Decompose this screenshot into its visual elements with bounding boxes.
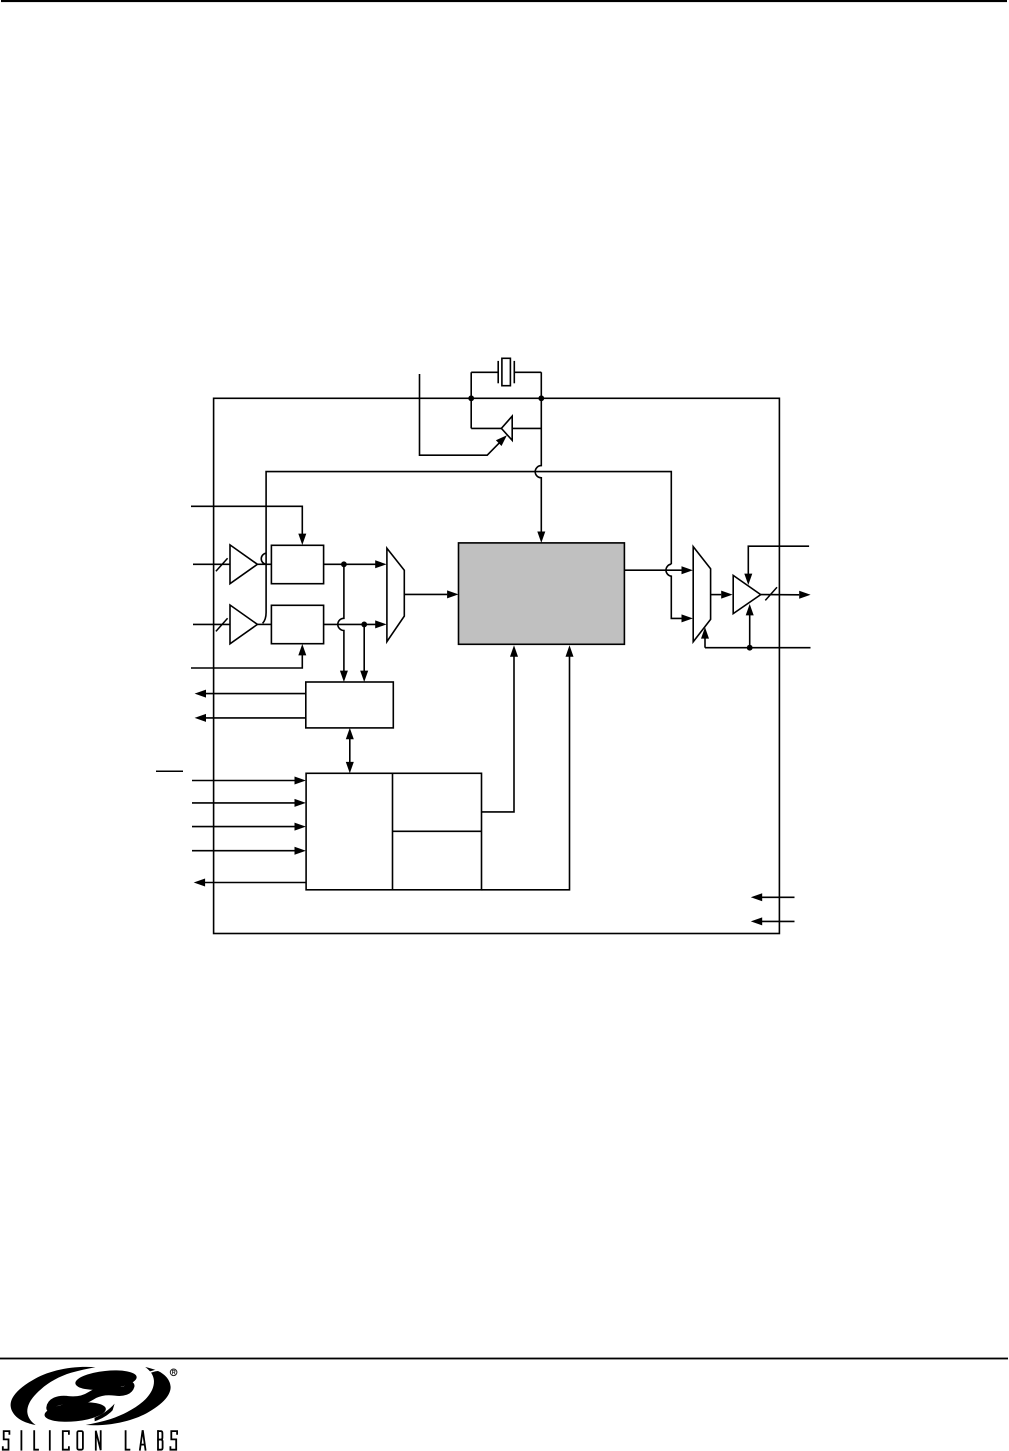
input buffer U2 [230,545,257,584]
wire clock output with arrow [761,591,811,599]
CKIN2 bus slash [216,618,228,631]
wire buffer1 to divider1 [257,563,271,565]
wire status-control bidirectional bus [346,728,354,773]
control block internal divider vertical [392,773,394,890]
wire inverter input [512,427,541,429]
overbar of active-low control signal label [156,770,183,772]
wire PLL bypass: tap from CKIN2 line up and across [261,472,671,624]
divider block N1 [271,545,323,583]
wire control output (arrow out left) [194,879,306,887]
wire control up into output buffer [746,604,754,648]
wire output enable OE stub [744,546,809,585]
wire CKIN2 input stub [193,623,230,625]
logo text SILICON LABS [3,1430,177,1450]
logo registered trademark symbol [170,1369,177,1376]
divider block N2 [271,605,323,643]
oscillator inverter U1 [501,416,512,440]
wire CKIN1 input stub [193,563,230,565]
wire divider2 output to mux [324,620,387,628]
output buffer U4 [733,575,761,613]
wire control input 3 [192,823,306,831]
node XB [538,395,544,401]
wire control to PLL riser 1 [482,645,519,812]
wire control up into output mux select [701,627,709,648]
input buffer U3 [230,605,257,644]
oscillator enable control arrow [420,374,507,455]
output bus slash [765,587,777,600]
crystal X1 [471,358,541,385]
control block internal divider horizontal [393,830,482,832]
wire XB vertical with jump over bypass line, arrow into PLL top [535,372,545,543]
wire output control stub [705,647,811,649]
wire status output 2 (arrow out left) [195,714,306,722]
wire output mux to buffer [711,591,733,599]
wire PLL output to output mux [624,566,693,574]
wire status output 1 (arrow out left) [195,690,306,698]
output mux [693,547,710,642]
control interface block [306,773,481,890]
wire control feed into divider1 top [191,506,306,545]
wire control to PLL riser 2 [482,645,574,890]
CKIN1 bus slash [216,558,228,571]
wire XA vertical [470,372,472,428]
wire buffer2 to divider2 [257,623,271,625]
wire control input 2 [192,799,306,807]
wire bypass down to output mux, jump over PLL output [666,564,693,622]
PLL / DSPLL block (gray) [459,543,625,644]
wire right-side control input 1 [751,893,795,901]
wire divider1 output to mux [324,560,387,568]
status block [306,682,394,728]
wire inverter output [471,427,501,429]
wire divider2 tap down to status block [360,624,368,682]
page top rule [1,0,1007,2]
wire control input 1 [192,777,306,785]
wire divider1 tap down to status block, jump over divider2 line [338,564,348,682]
Silicon Labs logo swirl [11,1367,171,1425]
wire control feed into divider2 bottom [191,644,306,668]
page bottom rule [0,1358,1008,1360]
node XA [468,395,474,401]
node divider1 output junction [341,561,347,567]
node output control junction [747,645,753,651]
input clock mux [387,548,404,641]
node divider2 output junction [361,622,367,628]
wire mux to PLL [404,590,458,598]
wire control input 4 [192,847,306,855]
wire right-side control input 2 [751,917,795,925]
chip boundary box [214,398,780,933]
